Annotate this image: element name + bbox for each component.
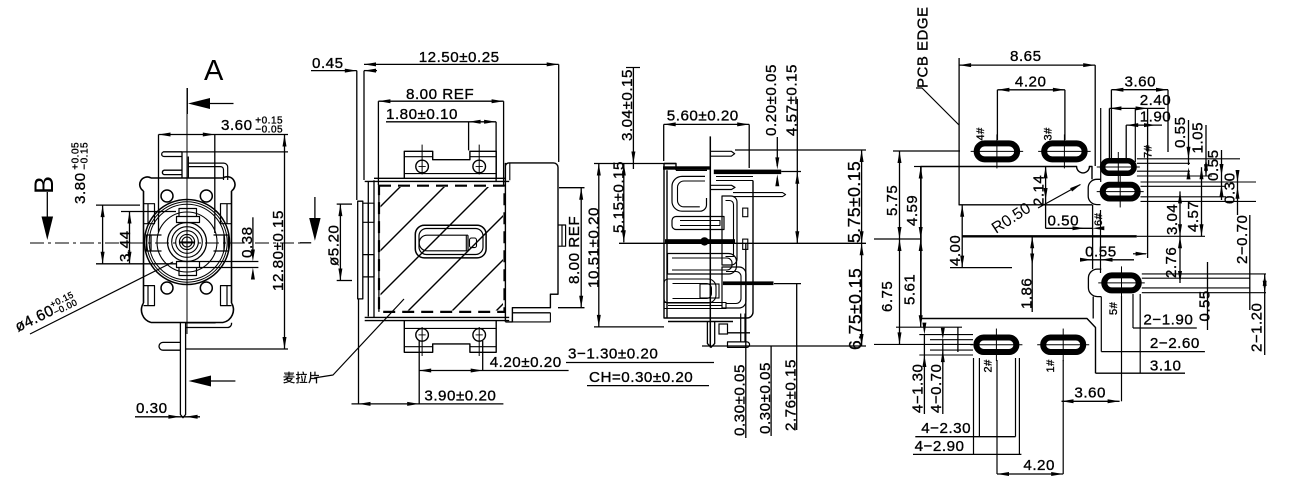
svg-text:4#: 4# xyxy=(975,127,987,141)
svg-text:A: A xyxy=(204,55,224,87)
view3 pin thick bar lower xyxy=(723,281,774,285)
pad 1# xyxy=(1043,338,1083,353)
svg-text:4.20: 4.20 xyxy=(1015,74,1047,91)
view3 bottom small square xyxy=(719,324,728,334)
view1 center cross xyxy=(179,241,195,243)
view3 top pin vertical xyxy=(709,136,711,347)
leader line for ø4.60 xyxy=(30,262,173,334)
view2 top screw right xyxy=(473,160,486,173)
svg-text:PCB EDGE: PCB EDGE xyxy=(915,6,932,88)
view1 top tab above barrel xyxy=(177,209,200,223)
pad2 extension lines left xyxy=(919,334,973,336)
view1 bottom step edge xyxy=(186,323,232,328)
section arrow at view2 left xyxy=(314,197,316,220)
svg-text:6.75: 6.75 xyxy=(879,281,896,312)
view2 bottom bracket xyxy=(404,321,496,353)
view3 bottom-left slab xyxy=(664,303,726,309)
svg-text:1.80±0.10: 1.80±0.10 xyxy=(386,106,458,123)
svg-text:2−0.70: 2−0.70 xyxy=(1234,215,1251,264)
pcb edge thin continuation xyxy=(1137,235,1205,237)
view3 vertical slot right xyxy=(722,196,737,265)
svg-text:0.30: 0.30 xyxy=(1222,172,1239,204)
view3 thin pin right xyxy=(733,193,786,197)
svg-text:5.61: 5.61 xyxy=(902,274,919,305)
view3 small box above slab xyxy=(700,284,719,298)
svg-text:CH=0.30±0.20: CH=0.30±0.20 xyxy=(589,369,693,386)
view3 top right pin exit xyxy=(716,177,753,181)
pad7 extension lines right xyxy=(1137,158,1240,160)
pcb edge horizontal xyxy=(959,204,1092,206)
view2 center slot middle xyxy=(419,229,483,255)
dimension ø4.60 +0.15/-0.00 diagonal xyxy=(11,289,79,335)
pcb edge vertical xyxy=(958,58,960,205)
section arrow B xyxy=(46,192,48,219)
view2 body bottom edge xyxy=(365,317,510,320)
view1 bottom tab below barrel xyxy=(177,262,200,276)
mylar leader line xyxy=(314,299,404,378)
pad 3# xyxy=(1044,143,1085,159)
view1 side tab right xyxy=(214,235,229,251)
view1 vertical centerline xyxy=(186,88,188,334)
view1 corner hole top-left xyxy=(161,190,173,202)
view3 hook contact middle channel xyxy=(672,217,724,230)
view3 bottom pin foot xyxy=(728,342,750,348)
pad 4# xyxy=(977,143,1018,159)
section arrow A xyxy=(186,88,188,114)
view1 corner notch bottom-right xyxy=(221,286,232,306)
svg-text:3.04: 3.04 xyxy=(1164,204,1181,235)
view4 outline cutout around pad5 xyxy=(1088,269,1101,297)
svg-text:5#: 5# xyxy=(1108,301,1120,315)
pcb edge bottom segment xyxy=(957,327,959,352)
svg-text:4.20±0.20: 4.20±0.20 xyxy=(490,354,562,371)
svg-text:0.30: 0.30 xyxy=(136,400,168,417)
pcb edge leader xyxy=(916,88,959,125)
view1 corner notch bottom-left xyxy=(144,286,155,306)
svg-text:3#: 3# xyxy=(1043,127,1055,141)
view1 horizontal centerline xyxy=(30,242,302,244)
svg-text:2.76: 2.76 xyxy=(1163,247,1180,278)
view1 bottom side tab xyxy=(159,342,180,350)
svg-text:1.05: 1.05 xyxy=(1190,122,1207,154)
view2 top screw left xyxy=(416,160,429,173)
svg-text:12.50±0.25: 12.50±0.25 xyxy=(419,49,500,66)
extension line x=1100.7 xyxy=(1100,108,1102,182)
svg-text:4.20: 4.20 xyxy=(1023,457,1055,474)
leader arrow at bottom pin xyxy=(189,376,212,387)
view3 right wall small rect lower xyxy=(743,239,748,249)
view2 bottom screw left xyxy=(416,329,429,342)
view1 corner hole bottom-right xyxy=(200,282,212,294)
pad 2# xyxy=(976,338,1016,353)
svg-text:8.65: 8.65 xyxy=(1010,48,1042,65)
svg-text:2−2.60: 2−2.60 xyxy=(1150,335,1200,352)
view2 barrel block inner lines xyxy=(510,163,558,313)
view3 right wall small rect upper xyxy=(743,208,748,217)
view2 bottom bracket plateau lines xyxy=(404,328,496,346)
view2 hatching xyxy=(274,184,623,313)
view3 pin thick bar upper-left xyxy=(663,166,710,169)
svg-text:4.59: 4.59 xyxy=(904,195,921,226)
shared extension line at mid height xyxy=(619,242,866,244)
view4 outline xyxy=(921,167,1092,319)
view2 right barrel block xyxy=(505,163,558,322)
dimension R0.50 with leader xyxy=(989,200,1034,238)
view3 lower hook small xyxy=(664,279,716,303)
view1 front view body outline xyxy=(140,177,235,323)
view1 top pin right bracket xyxy=(188,163,227,180)
svg-text:0.55: 0.55 xyxy=(1197,290,1214,321)
view2 flange tab lower xyxy=(363,255,374,277)
view3 housing outline xyxy=(664,164,753,322)
view2 top bracket xyxy=(404,151,496,178)
pad 7# xyxy=(1103,161,1135,174)
svg-text:3.60: 3.60 xyxy=(221,117,253,134)
svg-text:3.60: 3.60 xyxy=(1074,385,1106,402)
view3 top edge xyxy=(676,169,707,171)
svg-text:4−2.30: 4−2.30 xyxy=(921,420,971,437)
view1 bottom pin xyxy=(180,323,185,418)
pad 6# xyxy=(1103,185,1138,199)
view1 jack barrel concentric circles xyxy=(145,200,230,285)
svg-text:2.40: 2.40 xyxy=(1140,92,1172,109)
svg-text:1.86: 1.86 xyxy=(1019,278,1036,309)
view2 body top edge xyxy=(365,178,510,181)
view2 slot right contact xyxy=(465,235,467,251)
svg-text:3.80: 3.80 xyxy=(72,172,89,204)
pad6 extension lines right xyxy=(1141,181,1257,183)
svg-text:3−1.30±0.20: 3−1.30±0.20 xyxy=(568,346,658,363)
view2 barrel right bump xyxy=(558,225,566,246)
view2 center slot inner xyxy=(419,235,468,251)
svg-text:4−2.90: 4−2.90 xyxy=(915,438,965,455)
svg-text:5.60±0.20: 5.60±0.20 xyxy=(667,108,739,125)
svg-text:0.55: 0.55 xyxy=(1172,116,1189,148)
view4 outline right between cutouts xyxy=(1092,205,1094,270)
view1 corner notch top-right xyxy=(221,204,232,224)
svg-text:2−1.90: 2−1.90 xyxy=(1143,312,1193,329)
view3 pin tip second xyxy=(710,185,735,189)
svg-text:8.00 REF: 8.00 REF xyxy=(406,86,474,103)
svg-text:−0.15: −0.15 xyxy=(80,142,91,170)
pad 5# xyxy=(1104,275,1139,290)
svg-text:0.20±0.05: 0.20±0.05 xyxy=(763,64,780,136)
view3 hook contact upper xyxy=(672,176,707,211)
view1 corner hole top-right xyxy=(200,190,212,202)
view2 center slot outer xyxy=(415,225,486,258)
svg-text:2−1.20: 2−1.20 xyxy=(1249,303,1266,352)
svg-text:7#: 7# xyxy=(1143,144,1155,158)
svg-text:4.57±0.15: 4.57±0.15 xyxy=(784,64,801,136)
view1 corner hole bottom-left xyxy=(161,282,173,294)
view4 outline bottom xyxy=(921,319,1096,374)
svg-text:5.75: 5.75 xyxy=(884,185,901,216)
view1 corner notch top-left xyxy=(144,204,155,224)
svg-text:3.60: 3.60 xyxy=(1125,74,1157,91)
svg-text:3.10: 3.10 xyxy=(1150,358,1182,375)
view3 bottom pin left xyxy=(707,322,714,348)
svg-text:3.90±0.20: 3.90±0.20 xyxy=(424,388,496,405)
pad5 extension lines right xyxy=(1142,273,1266,275)
view1 side tab left xyxy=(147,235,162,251)
view2 top bracket plateau lines xyxy=(404,157,496,174)
view1 top pins prong upper xyxy=(162,152,182,157)
view3 hook contact lower xyxy=(668,254,737,275)
view1 top pin vertical body xyxy=(182,152,188,178)
view2 bottom screw right xyxy=(473,329,486,342)
view2 hidden body dashed outline xyxy=(379,186,505,312)
view4 outline cutout around pad6 xyxy=(1088,179,1100,204)
svg-text:B: B xyxy=(29,176,59,194)
view3 pin thick bar top right xyxy=(714,170,781,175)
svg-text:10.51±0.20: 10.51±0.20 xyxy=(585,207,602,288)
view1 top pins prong lower xyxy=(162,170,182,174)
svg-text:1.90: 1.90 xyxy=(1140,109,1172,126)
svg-text:2#: 2# xyxy=(983,359,995,373)
svg-text:0.45: 0.45 xyxy=(312,55,344,72)
svg-text:4.57: 4.57 xyxy=(1185,201,1202,232)
svg-text:6#: 6# xyxy=(1093,212,1105,226)
view2 barrel bottom step xyxy=(512,313,550,322)
view3 lower-right slot xyxy=(722,267,746,308)
pcb edge thick line xyxy=(962,235,1137,237)
svg-text:1#: 1# xyxy=(1045,359,1057,373)
dimension 3.80 +0.05/-0.15 left of view1 xyxy=(71,142,91,204)
view2 body left edge xyxy=(368,180,379,317)
view2 left flange xyxy=(358,201,363,299)
view2 flange tab upper xyxy=(363,203,374,222)
svg-text:3.44: 3.44 xyxy=(117,230,134,262)
svg-text:8.00 REF: 8.00 REF xyxy=(566,216,583,284)
view3 pin from slot to foot xyxy=(741,314,745,342)
view3 pin thick bar middle xyxy=(665,239,735,243)
view3 top pin tip xyxy=(710,151,734,156)
